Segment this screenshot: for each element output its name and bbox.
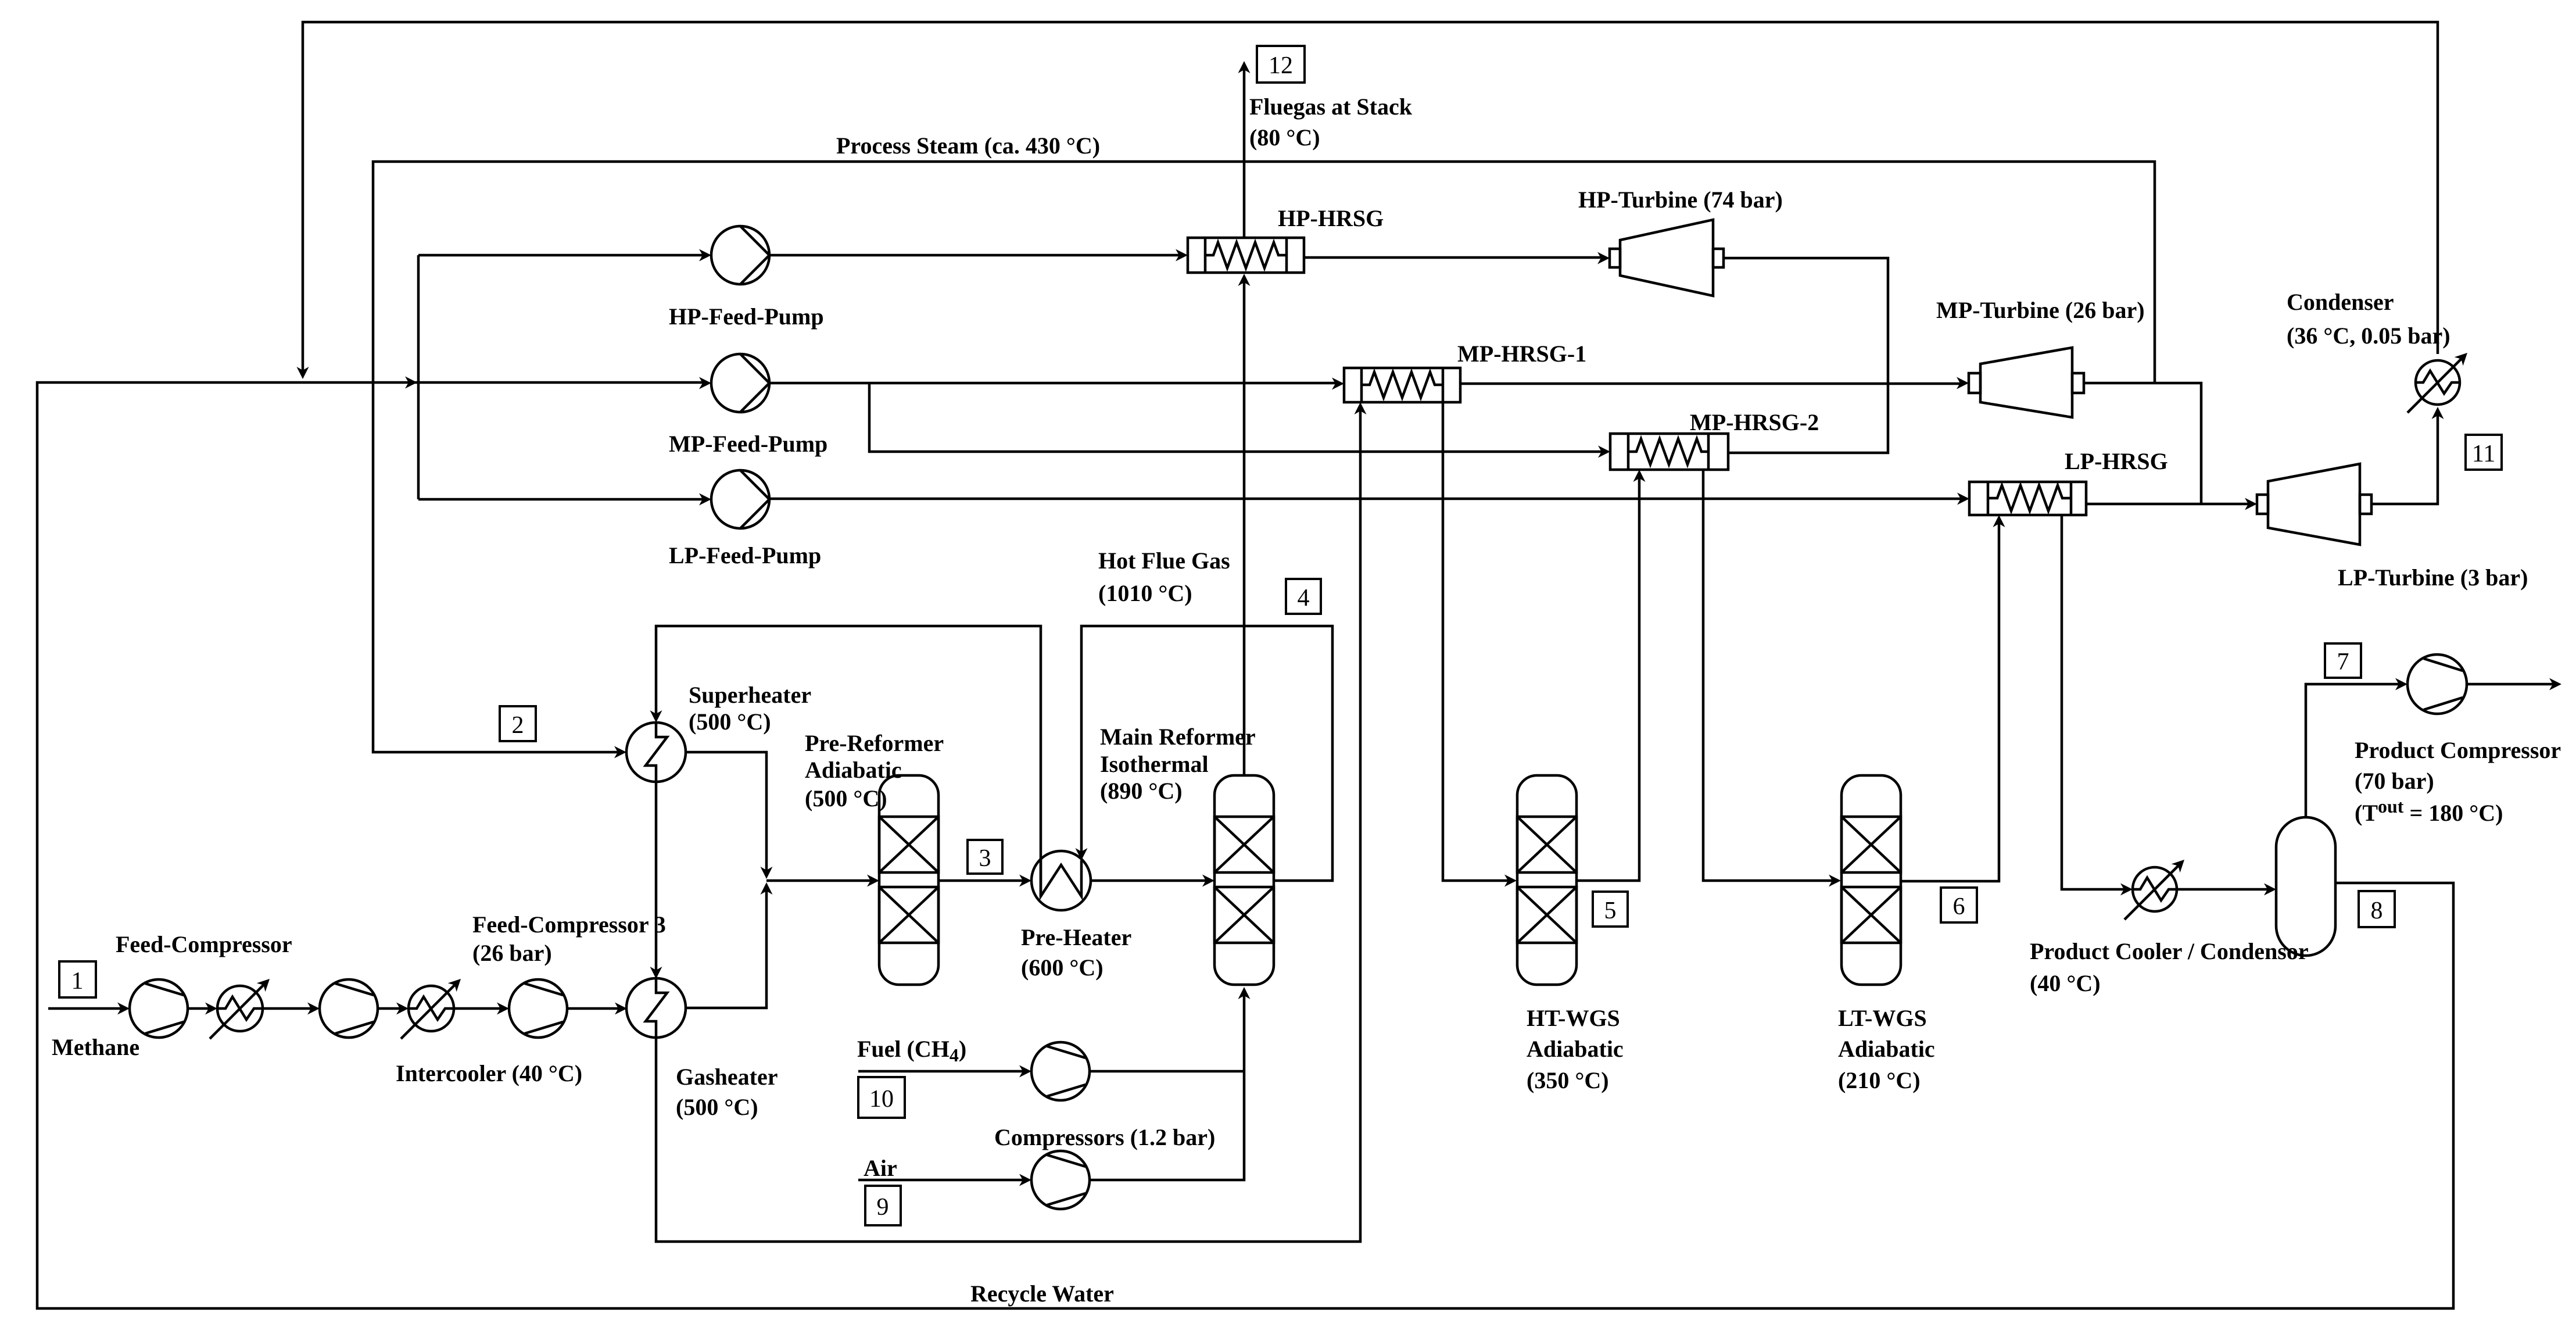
compressor Feed-Compressor stage 1 xyxy=(130,979,188,1038)
wire intercooler 1 to compressor 2 xyxy=(263,1007,315,1010)
wire HP steam to HP-Turbine xyxy=(1304,256,1605,259)
node stream 1 box xyxy=(59,961,96,997)
svg-text:10: 10 xyxy=(869,1086,894,1113)
svg-text:HP-Turbine (74 bar): HP-Turbine (74 bar) xyxy=(1578,187,1783,213)
svg-text:LP-Turbine (3 bar): LP-Turbine (3 bar) xyxy=(2338,564,2528,591)
svg-text:Pre-Heater: Pre-Heater xyxy=(1021,924,1131,950)
svg-text:Product Cooler / Condensor: Product Cooler / Condensor xyxy=(2030,938,2309,964)
wire intercooler 2 to compressor 3 xyxy=(454,1007,504,1010)
svg-text:(1010 °C): (1010 °C) xyxy=(1098,580,1192,606)
svg-text:9: 9 xyxy=(877,1194,889,1221)
node stream 7 box xyxy=(2325,643,2361,678)
svg-text:Product Compressor: Product Compressor xyxy=(2355,737,2561,763)
wire pump suction manifold xyxy=(417,255,420,499)
svg-text:LP-Feed-Pump: LP-Feed-Pump xyxy=(669,542,821,568)
svg-text:(500 °C): (500 °C) xyxy=(689,709,771,735)
svg-text:6: 6 xyxy=(1953,893,1965,920)
node stream 10 box xyxy=(858,1077,905,1118)
node stream 5 box xyxy=(1593,892,1628,927)
compressor Air-Compressor xyxy=(1031,1151,1090,1209)
svg-text:Superheater: Superheater xyxy=(689,682,811,708)
svg-text:Adiabatic: Adiabatic xyxy=(805,757,902,783)
compressor Product-Compressor xyxy=(2407,655,2467,714)
svg-text:Main Reformer: Main Reformer xyxy=(1100,724,1256,750)
svg-text:Compressors (1.2 bar): Compressors (1.2 bar) xyxy=(994,1124,1215,1150)
wire superheater hot outlet to gasheater xyxy=(655,782,658,974)
node stream 4 box xyxy=(1286,579,1321,614)
heat-exchanger HP-HRSG xyxy=(1188,238,1304,273)
node stream 2 box xyxy=(500,706,536,741)
svg-text:(80 °C): (80 °C) xyxy=(1249,124,1320,151)
wire MP steam to MP-Turbine xyxy=(1460,382,1964,385)
svg-text:Pre-Reformer: Pre-Reformer xyxy=(805,730,944,756)
svg-text:3: 3 xyxy=(979,845,991,872)
wire LP steam to LP-Turbine xyxy=(2086,503,2252,506)
wire MP-HRSG-2 syngas outlet to LT-WGS xyxy=(1703,470,1836,881)
wire pre-heater hot outlet to superheater xyxy=(656,626,1041,896)
svg-text:MP-HRSG-2: MP-HRSG-2 xyxy=(1690,409,1819,435)
heater Gasheater xyxy=(626,978,686,1038)
svg-text:(600 °C): (600 °C) xyxy=(1021,954,1104,981)
svg-text:Process Steam (ca. 430 °C): Process Steam (ca. 430 °C) xyxy=(836,133,1100,159)
wire HP feedwater to HP-HRSG xyxy=(769,254,1183,257)
reactor Main Reformer column xyxy=(1214,775,1274,985)
wire fuel to fuel compressor xyxy=(858,1070,1027,1073)
svg-text:Adiabatic: Adiabatic xyxy=(1838,1036,1935,1062)
svg-text:(210 °C): (210 °C) xyxy=(1838,1067,1921,1093)
wire heated feed gas to mixer xyxy=(685,886,766,1008)
svg-text:Isothermal: Isothermal xyxy=(1100,751,1209,777)
wire air compressor to reformer burner xyxy=(1090,990,1244,1180)
wire LT-WGS outlet to LP-HRSG xyxy=(1901,520,1999,881)
reactor LT-WGS column xyxy=(1841,775,1901,985)
wire product compressor discharge xyxy=(2467,683,2557,686)
wire hot flue gas reformer to HP-HRSG xyxy=(1243,277,1246,775)
svg-text:Gasheater: Gasheater xyxy=(676,1064,778,1090)
wire recycle water loop and feed water line xyxy=(37,382,2453,1308)
wire process steam header xyxy=(373,162,2155,752)
node stream 8 box xyxy=(2359,891,2395,927)
pump LP-Feed-Pump xyxy=(711,470,769,528)
svg-text:12: 12 xyxy=(1269,52,1293,79)
cooler intercooler 1 xyxy=(210,982,267,1039)
svg-text:LP-HRSG: LP-HRSG xyxy=(2065,448,2168,474)
svg-text:Hot Flue Gas: Hot Flue Gas xyxy=(1098,548,1230,574)
svg-text:Fluegas at Stack: Fluegas at Stack xyxy=(1249,94,1413,120)
turbine HP-Turbine xyxy=(1610,220,1724,296)
svg-text:(36 °C, 0.05 bar): (36 °C, 0.05 bar) xyxy=(2287,323,2450,349)
wire fluegas to stack xyxy=(1243,65,1246,238)
wire pre-heater outlet to main reformer xyxy=(1091,879,1210,882)
heat-exchanger MP-HRSG-1 xyxy=(1344,368,1460,402)
reactor Pre-Reformer column xyxy=(879,775,938,985)
svg-text:(500 °C): (500 °C) xyxy=(676,1094,758,1120)
compressor Feed-Compressor stage 2 xyxy=(320,979,378,1038)
wire pre-reformer outlet to pre-heater xyxy=(938,879,1027,882)
vessel separator drum xyxy=(2276,817,2335,956)
cooler Product-Cooler xyxy=(2124,863,2181,920)
node stream 6 box xyxy=(1941,888,1977,922)
svg-text:Condenser: Condenser xyxy=(2287,289,2394,315)
svg-text:Feed-Compressor 3: Feed-Compressor 3 xyxy=(472,911,666,938)
compressor Feed-Compressor stage 3 xyxy=(509,979,567,1038)
wire compressor 3 to gasheater xyxy=(567,1007,622,1010)
svg-text:(890 °C): (890 °C) xyxy=(1100,778,1183,804)
svg-text:Methane: Methane xyxy=(52,1034,139,1060)
wire LP pump suction xyxy=(418,498,707,501)
wire fuel compressor to burner line xyxy=(1090,1070,1244,1073)
wire separator vapour to product compressor xyxy=(2306,684,2403,817)
svg-text:Intercooler (40 °C): Intercooler (40 °C) xyxy=(396,1060,582,1086)
svg-text:LT-WGS: LT-WGS xyxy=(1838,1005,1927,1031)
wire compressor 1 to intercooler 1 xyxy=(188,1007,213,1010)
turbine MP-Turbine xyxy=(1969,348,2084,417)
svg-text:8: 8 xyxy=(2371,897,2383,924)
wire MP-HRSG-1 syngas outlet to HT-WGS xyxy=(1443,402,1511,881)
pump MP-Feed-Pump xyxy=(711,354,769,412)
svg-text:(350 °C): (350 °C) xyxy=(1527,1067,1609,1093)
svg-text:HP-Feed-Pump: HP-Feed-Pump xyxy=(669,303,824,330)
node stream 3 box xyxy=(968,840,1002,874)
svg-text:(40 °C): (40 °C) xyxy=(2030,970,2101,996)
node stream 12 box xyxy=(1257,46,1305,83)
wire condensate return: condenser top to feed line xyxy=(303,22,2438,375)
svg-text:MP-Feed-Pump: MP-Feed-Pump xyxy=(669,431,827,457)
svg-text:Air: Air xyxy=(864,1155,897,1181)
wire methane feed xyxy=(48,1007,125,1010)
wire reformer outlet to pre-heater hot side xyxy=(1081,626,1332,881)
svg-text:MP-HRSG-1: MP-HRSG-1 xyxy=(1457,341,1586,367)
wire LP feedwater to LP-HRSG xyxy=(769,498,1965,500)
pump HP-Feed-Pump xyxy=(711,226,769,284)
wire LP-HRSG syngas outlet to product cooler xyxy=(2062,515,2128,889)
wire HP-Turbine exhaust to MP-HRSG-2 outlet junction xyxy=(1724,258,1888,453)
cooler intercooler 2 xyxy=(401,982,458,1039)
node stream 11 box xyxy=(2466,435,2502,470)
heater Superheater xyxy=(626,723,686,782)
svg-text:(26 bar): (26 bar) xyxy=(472,940,552,966)
svg-text:(Tout = 180 °C): (Tout = 180 °C) xyxy=(2355,796,2503,826)
wire superheated steam to mixer xyxy=(686,752,766,875)
cooler Condenser xyxy=(2407,356,2464,413)
wire MP feedwater branch to MP-HRSG-2 xyxy=(869,383,1606,452)
wire MP-Turbine exhaust down to LP-Turbine feed xyxy=(2084,383,2201,504)
wire HP pump suction xyxy=(418,254,707,257)
wire LP-Turbine exhaust to condenser xyxy=(2371,410,2438,504)
svg-text:11: 11 xyxy=(2472,441,2495,467)
svg-text:7: 7 xyxy=(2337,649,2349,675)
wire product cooler outlet to separator xyxy=(2177,888,2272,891)
svg-text:2: 2 xyxy=(512,712,524,739)
svg-text:MP-Turbine (26 bar): MP-Turbine (26 bar) xyxy=(1936,297,2145,323)
heat-exchanger MP-HRSG-2 xyxy=(1610,434,1728,470)
wire compressor 2 to intercooler 2 xyxy=(378,1007,404,1010)
svg-text:HT-WGS: HT-WGS xyxy=(1527,1005,1620,1031)
turbine LP-Turbine xyxy=(2257,464,2371,545)
svg-text:5: 5 xyxy=(1604,897,1617,924)
reactor HT-WGS column xyxy=(1517,775,1577,985)
wire air to air compressor xyxy=(858,1179,1027,1182)
wire gasheater hot outlet to MP-HRSG-1 xyxy=(656,407,1360,1242)
heat-exchanger LP-HRSG xyxy=(1969,482,2086,515)
wire HT-WGS outlet to MP-HRSG-2 xyxy=(1577,474,1639,881)
svg-text:Recycle Water: Recycle Water xyxy=(970,1281,1114,1307)
wire mixed feed to pre-reformer xyxy=(766,879,875,882)
svg-text:1: 1 xyxy=(71,968,84,995)
compressor Fuel-Compressor xyxy=(1031,1042,1090,1100)
svg-text:Adiabatic: Adiabatic xyxy=(1527,1036,1624,1062)
svg-text:HP-HRSG: HP-HRSG xyxy=(1278,205,1384,231)
heat-exchanger Pre-Heater xyxy=(1031,851,1091,910)
svg-text:(500 °C): (500 °C) xyxy=(805,785,887,811)
wire MP feedwater to MP-HRSG-1 xyxy=(769,382,1339,385)
svg-text:(70 bar): (70 bar) xyxy=(2355,768,2434,794)
svg-text:4: 4 xyxy=(1298,585,1310,611)
svg-text:Feed-Compressor: Feed-Compressor xyxy=(116,931,292,957)
node stream 9 box xyxy=(865,1186,901,1225)
